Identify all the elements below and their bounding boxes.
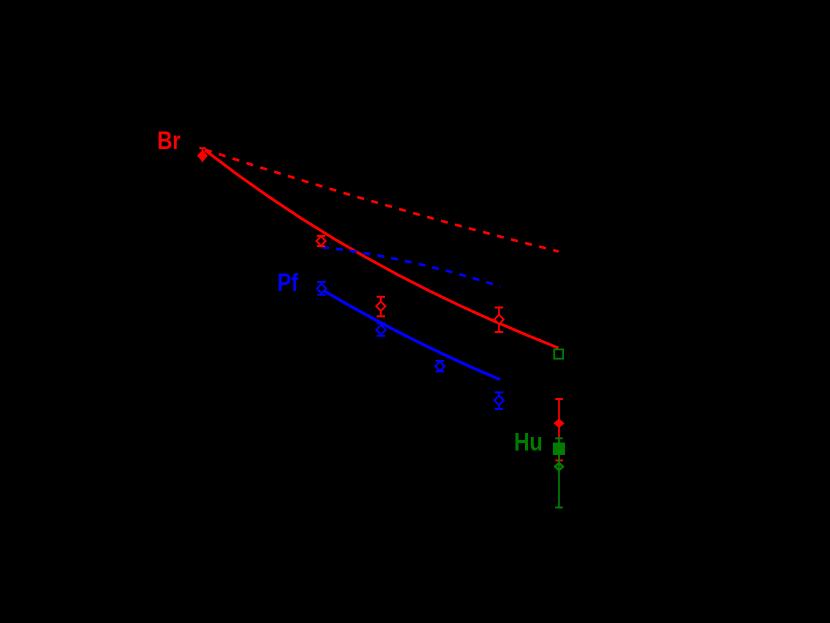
- blue solid fit line (Pf): [322, 290, 500, 380]
- green Hu open diamond marker: [555, 463, 563, 470]
- svg-text:Hu: Hu: [514, 428, 543, 456]
- blue point 4 open diamond marker: [494, 396, 503, 405]
- blue point 4 error bar: [495, 392, 503, 409]
- red point 3 open diamond marker: [494, 315, 503, 324]
- green Hu error bar: [555, 438, 563, 507]
- blue dashed fit line (Pf extrapolation): [322, 247, 500, 287]
- red point 0 filled diamond marker: [198, 151, 207, 161]
- blue point 3 error bar: [436, 361, 444, 371]
- green open square marker (end of red curve): [554, 349, 563, 358]
- svg-text:Br: Br: [157, 126, 180, 154]
- blue point 2 open diamond marker: [376, 325, 385, 334]
- blue point 3 open diamond marker: [435, 361, 444, 370]
- red point 1 error bar: [317, 236, 325, 246]
- svg-text:Pf: Pf: [277, 268, 298, 296]
- red point 3 error bar: [495, 308, 503, 333]
- red point 0 error bar: [199, 148, 205, 162]
- red Hu filled diamond marker: [554, 419, 563, 427]
- red dashed fit line (Br extrapolation): [205, 150, 559, 252]
- blue point 1 error bar: [317, 282, 325, 295]
- blue point 1 open diamond marker: [317, 284, 326, 293]
- green Hu filled square marker: [553, 443, 565, 456]
- red point 2 open diamond marker: [376, 302, 385, 311]
- red point 1 open diamond marker: [316, 236, 325, 245]
- blue point 2 error bar: [377, 323, 385, 336]
- red Hu error bar: [555, 399, 563, 460]
- red solid fit curve (Br): [205, 150, 559, 348]
- red point 2 error bar: [377, 297, 385, 317]
